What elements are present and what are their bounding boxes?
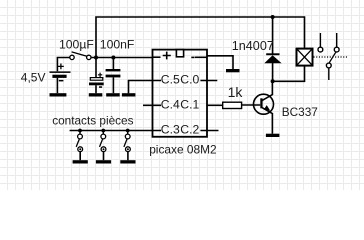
relay coil K1 [297, 49, 313, 66]
wire collector rail [273, 66, 305, 82]
capacitor C1 100uF [89, 58, 104, 94]
ground SW2 [73, 160, 88, 163]
node junction rail / 100uF [94, 56, 98, 60]
svg-text:100µF: 100µF [59, 38, 94, 52]
svg-text:C.5: C.5 [161, 72, 180, 86]
wire power rail to IC [91, 57, 153, 59]
switch S1 (power) [70, 52, 91, 60]
wire relay linkage (dotted) [314, 56, 349, 58]
ground SW4 [120, 160, 135, 163]
relay contact terminal 1 [319, 33, 321, 47]
svg-text:100nF: 100nF [100, 38, 135, 52]
wire contacts rail C.3 [70, 130, 161, 132]
svg-text:1k: 1k [228, 84, 244, 100]
svg-text:4,5V: 4,5V [21, 70, 46, 84]
svg-text:picaxe 08M2: picaxe 08M2 [149, 142, 217, 156]
node junction rail / 100nF [111, 56, 115, 60]
svg-text:1n4007: 1n4007 [232, 39, 274, 53]
relay contact terminal 2 [336, 33, 338, 47]
IC U1 picaxe 08M2 [153, 50, 208, 137]
wire C.2 stub [200, 130, 218, 132]
svg-text:BC337: BC337 [282, 105, 318, 119]
diode D1 1n4007 [264, 17, 281, 81]
node junction top rail / diode [271, 15, 275, 19]
ground SW3 [96, 160, 111, 163]
ground C2 [106, 93, 120, 96]
node junction diode/collector [271, 79, 275, 83]
resistor R1 1k [207, 102, 260, 108]
ground IC minus [226, 69, 240, 72]
relay contact common [326, 63, 331, 68]
ground C.5 [122, 93, 135, 96]
wire C.5 pin to ground [129, 81, 162, 94]
wire C.4 stub [143, 104, 161, 106]
battery B1 4,5V [50, 58, 71, 94]
capacitor C2 100nF [106, 58, 121, 94]
wire top rail V+ [96, 17, 305, 58]
svg-text:C.4: C.4 [161, 98, 180, 112]
ground battery [50, 93, 67, 96]
wire IC minus to ground [207, 56, 233, 69]
switch SW2 contact piece 1 [76, 129, 82, 161]
ground Q1 emitter [266, 134, 280, 137]
switch SW3 contact piece 2 [100, 129, 106, 161]
svg-text:C.1: C.1 [180, 98, 199, 112]
svg-text:C.3: C.3 [161, 122, 180, 136]
svg-text:C.2: C.2 [180, 122, 199, 136]
svg-text:C.0: C.0 [180, 72, 199, 86]
wire C.0 stub [200, 80, 217, 82]
ground C1 [89, 93, 103, 96]
transistor Q1 BC337 [254, 81, 274, 133]
switch SW4 contact piece 3 [124, 129, 130, 161]
svg-text:contacts pièces: contacts pièces [52, 114, 133, 128]
relay switch arm [329, 52, 336, 63]
